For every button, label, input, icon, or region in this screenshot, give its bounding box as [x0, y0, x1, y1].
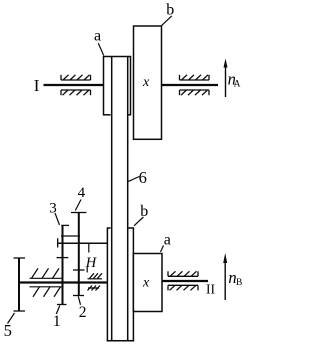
gears 3-4 hub bar [61, 235, 80, 237]
leader a bottom [161, 246, 164, 253]
bearing train-left top hatch [32, 268, 60, 278]
svg-text:5: 5 [4, 321, 12, 340]
carrier H left tick [57, 238, 59, 247]
arrow nA [225, 63, 227, 97]
leader b top [161, 16, 171, 26]
arrow nB [224, 258, 226, 300]
gears 3-1 mesh tick [57, 257, 69, 259]
bearing I-right top bracket [180, 75, 210, 80]
bearing II top bracket [168, 271, 198, 276]
leader 4 [75, 200, 81, 211]
bearing I-right top hatch [182, 75, 209, 80]
bearing II bottom hatch [170, 285, 197, 290]
pulley b on shaft II [107, 228, 133, 341]
bearing I-left bottom hatch [63, 90, 90, 95]
gear 5 disc line [18, 258, 20, 311]
gears 4-2 mesh tick [73, 269, 85, 271]
svg-text:x: x [142, 75, 150, 90]
leader 6 [128, 177, 139, 182]
bearing II bottom bracket [168, 285, 198, 290]
svg-text:a: a [164, 231, 171, 248]
svg-text:x: x [142, 276, 150, 291]
leader b bottom [134, 217, 143, 226]
gear 5 bottom tick [14, 310, 26, 312]
svg-text:2: 2 [79, 304, 87, 321]
pulley a on shaft I [104, 57, 131, 115]
gear 2 bottom tick [73, 295, 84, 297]
leader 5 [8, 313, 15, 324]
gear 5 top tick [14, 257, 26, 259]
belt 6 left line [111, 57, 113, 340]
bearing H-support top hatch [90, 273, 103, 278]
bearing II top hatch [170, 271, 197, 276]
bearing train-left top line [30, 277, 63, 279]
svg-text:A: A [234, 79, 241, 89]
svg-text:b: b [166, 1, 174, 18]
svg-text:I: I [34, 76, 40, 95]
gear train axis line [19, 281, 107, 283]
gear 4 and gear 2 disc line [78, 213, 80, 296]
gear 4 top tick [71, 212, 87, 214]
leader 2 [78, 296, 80, 305]
bearing H-support bottom hatch [88, 286, 101, 291]
pulley b on shaft I [134, 26, 162, 139]
bearing I-right bottom bracket [180, 90, 210, 95]
leader 3 [55, 213, 60, 225]
svg-text:1: 1 [53, 313, 61, 330]
shaft I right segment [161, 84, 218, 86]
pulley a on shaft II [133, 254, 162, 312]
bearing I-left top hatch [63, 75, 90, 80]
belt 6 white body [111, 58, 129, 340]
carrier H support drop [88, 243, 90, 252]
svg-text:6: 6 [139, 168, 147, 187]
svg-text:II: II [206, 282, 215, 297]
pulley b bottom edge redraw [107, 340, 134, 342]
svg-text:a: a [94, 28, 101, 45]
svg-text:4: 4 [78, 185, 86, 201]
shaft II segment [162, 280, 208, 282]
bearing H-support top line [88, 278, 103, 280]
shaft I left segment [44, 84, 105, 86]
gear 3 and gear 1 disc line [62, 225, 64, 304]
bearing I-left bottom bracket [61, 90, 91, 95]
svg-text:B: B [236, 278, 242, 288]
bearing train-left bottom line [30, 286, 63, 288]
svg-text:b: b [140, 203, 148, 220]
belt 6 right line [127, 57, 129, 340]
gear 1 bottom tick [57, 304, 67, 306]
bearing I-right bottom hatch [181, 90, 208, 95]
bearing I-left top bracket [61, 75, 91, 80]
gear 3 top tick [61, 224, 69, 226]
svg-text:3: 3 [49, 200, 57, 216]
bearing train-left bottom hatch [33, 287, 61, 297]
leader a top [98, 43, 103, 55]
carrier H arm line [58, 242, 108, 244]
leader 1 [56, 306, 60, 315]
svg-text:H: H [85, 255, 98, 271]
